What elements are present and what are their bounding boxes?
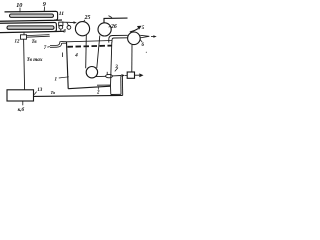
leader for 2 (97, 86, 99, 89)
box 3 outlet (135, 74, 140, 76)
leader for 10 (19, 8, 21, 13)
pump downcomer to box 3 (131, 45, 133, 72)
leader for 7 (47, 46, 50, 49)
condensate trap body (59, 22, 63, 26)
line to control box (24, 39, 25, 90)
svg-text:Тв mах: Тв mах (27, 57, 43, 63)
valve ellipse (106, 74, 113, 77)
svg-text:13: 13 (37, 88, 43, 93)
svg-text:к,б: к,б (18, 106, 25, 113)
svg-text:10: 10 (16, 2, 22, 9)
vessel left wall (67, 42, 69, 89)
svg-text:26: 26 (110, 24, 117, 30)
separator circle 26 (98, 23, 111, 36)
pump suction pipe bottom line (112, 38, 128, 43)
box output stub (22, 101, 24, 105)
svg-text:4: 4 (74, 53, 78, 58)
pump suction pipe top line (109, 35, 128, 42)
leader for 13 (34, 92, 36, 95)
svg-text:3: 3 (114, 65, 118, 70)
small dash below nozzle (62, 53, 64, 58)
second exchanger outer top line (0, 22, 55, 25)
outlet arrowhead (139, 73, 143, 77)
vessel bottom (68, 86, 110, 89)
long bottom pipe (34, 95, 123, 96)
gauge circle 8 (67, 26, 71, 30)
vessel bottom thickening (97, 84, 110, 86)
drain stub horizontal (111, 93, 121, 95)
control box 13 (7, 90, 34, 101)
pump discharge nozzle (140, 35, 149, 38)
svg-text:2: 2 (96, 90, 100, 95)
gauge stem (67, 22, 69, 25)
arrow into box 3 (121, 74, 125, 77)
drain line from bulb to valve 2 (96, 75, 106, 77)
heat exchanger tube outer bottom line (0, 20, 62, 21)
valve 12 box (21, 35, 27, 39)
heat exchanger tube right closure (54, 11, 58, 20)
pipe trap to gauge (63, 21, 70, 23)
leader for 6 (140, 39, 143, 42)
svg-text:Тв: Тв (51, 90, 56, 95)
heat exchanger inner tube 9 (10, 14, 54, 17)
vessel bottom drain stub (110, 86, 112, 94)
arrow into separator 25 (70, 21, 74, 23)
svg-text:12: 12 (15, 40, 21, 45)
junction box 3 (127, 72, 134, 78)
leader for 3 (115, 68, 118, 72)
separator circle 25 (75, 22, 89, 36)
second exchanger right closure (54, 23, 56, 32)
pipe from valve 12 bottom line (27, 36, 50, 37)
pump circle 6 (128, 32, 141, 45)
valve stem (106, 72, 108, 75)
pipe from valve 12 top line (27, 35, 50, 36)
svg-text:11: 11 (59, 11, 64, 17)
nozzle 7 stub lines (50, 41, 67, 45)
second exchanger inner tube (7, 26, 54, 29)
stray dot (146, 52, 147, 53)
drain arrow to junction (112, 75, 121, 77)
leader for 9 (43, 7, 45, 12)
svg-text:1: 1 (55, 78, 58, 83)
vessel heavy dashed level line (68, 46, 112, 47)
riser inner (120, 76, 122, 94)
vessel right wall (111, 42, 112, 86)
svg-text:Тв: Тв (32, 40, 38, 45)
discharge arrow (151, 36, 154, 38)
sensor bulb 4 (86, 67, 97, 78)
downpipe from 25 (85, 35, 88, 68)
riser outer (121, 76, 123, 96)
leader for 1 (59, 77, 69, 78)
small arrow tick on vapor line (109, 16, 113, 18)
vapor line from 26 (104, 18, 128, 23)
valve 12 stem (23, 32, 25, 34)
heat exchanger tube 9/10 outer top line (5, 10, 57, 13)
leader for 26 (109, 26, 111, 27)
downpipe from 26 (97, 36, 100, 68)
condensate trap bowl (59, 25, 63, 29)
leader for 25 (83, 20, 85, 22)
pump vent arrow (130, 29, 138, 32)
trap stem down (60, 29, 62, 31)
second exchanger outer bottom line (0, 31, 65, 32)
vessel top plate (67, 41, 113, 42)
